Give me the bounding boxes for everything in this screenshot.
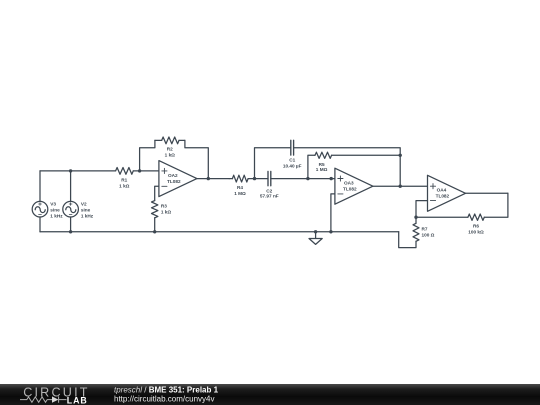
svg-text:V2: V2 bbox=[81, 202, 87, 207]
svg-text:10.40 µF: 10.40 µF bbox=[283, 164, 302, 169]
capacitor C2 bbox=[268, 171, 271, 185]
R5 value label bbox=[316, 162, 328, 172]
R1 value label bbox=[119, 177, 130, 188]
svg-text:sine: sine bbox=[50, 208, 60, 213]
R4 value label bbox=[234, 185, 246, 196]
wire: top rail from V3 to R1 bbox=[40, 170, 116, 172]
node junction OA3- at rail bbox=[329, 230, 332, 233]
svg-text:1 MΩ: 1 MΩ bbox=[316, 167, 328, 172]
voltage source V3 bbox=[32, 171, 48, 232]
wire: to OA3 noninverting input bbox=[308, 178, 335, 180]
node junction OA3 output bbox=[399, 185, 402, 188]
R3 value label bbox=[161, 204, 172, 215]
wire: OA2 output bbox=[197, 178, 229, 180]
resistor R7 bbox=[399, 217, 419, 247]
svg-text:C1: C1 bbox=[289, 158, 295, 163]
op-amp OA2 TL082 bbox=[159, 161, 197, 197]
op-amp OA3 TL082 bbox=[335, 168, 373, 204]
svg-text:tpreschl / BME 351: Prelab 1: tpreschl / BME 351: Prelab 1 bbox=[114, 385, 219, 394]
node junction OA3 input bbox=[330, 177, 333, 180]
svg-text:R2: R2 bbox=[167, 147, 173, 152]
resistor R3 bbox=[152, 201, 158, 232]
wire: C1 branch bbox=[255, 148, 401, 187]
node junction OA4-/R6/R7 bbox=[414, 216, 417, 219]
svg-text:TL082: TL082 bbox=[167, 179, 181, 184]
svg-text:http://circuitlab.com/cunvy4v: http://circuitlab.com/cunvy4v bbox=[114, 395, 214, 404]
V2 value label bbox=[81, 202, 94, 219]
resistor R5 bbox=[315, 152, 332, 158]
wire: OA3 inverting input to ground rail bbox=[331, 194, 335, 232]
wire: C2 leads bbox=[255, 178, 308, 180]
node junction R5/C1 vertical bbox=[399, 154, 402, 157]
C1 value label bbox=[283, 158, 302, 169]
svg-text:1 kHz: 1 kHz bbox=[50, 214, 63, 219]
wire: OA4 inverting input branch bbox=[416, 201, 428, 218]
svg-text:1 kΩ: 1 kΩ bbox=[165, 153, 176, 158]
node junction at R1/R2/OA2+ bbox=[138, 169, 141, 172]
svg-text:R3: R3 bbox=[161, 204, 167, 209]
voltage source V2 bbox=[63, 171, 79, 232]
resistor R1 bbox=[116, 168, 140, 175]
svg-text:sine: sine bbox=[81, 208, 91, 213]
node junction V2 bottom rail bbox=[69, 230, 72, 233]
node junction V2 top rail bbox=[69, 169, 72, 172]
svg-text:100 Ω: 100 Ω bbox=[422, 232, 435, 237]
R7 value label bbox=[422, 227, 435, 238]
svg-text:LAB: LAB bbox=[67, 395, 88, 405]
C2 value label bbox=[260, 189, 279, 199]
svg-text:R1: R1 bbox=[121, 177, 127, 182]
svg-text:57.97 nF: 57.97 nF bbox=[260, 194, 279, 199]
svg-text:R4: R4 bbox=[237, 185, 243, 190]
wire: OA3 output to OA4 bbox=[373, 185, 428, 187]
svg-text:100 kΩ: 100 kΩ bbox=[468, 229, 484, 234]
node junction R4/C1/C2 bbox=[253, 177, 256, 180]
wire: R6 lead from node bbox=[416, 216, 468, 218]
svg-text:1 kΩ: 1 kΩ bbox=[119, 183, 130, 188]
wire: R2 feedback branch bbox=[140, 140, 209, 178]
svg-text:1 kΩ: 1 kΩ bbox=[161, 210, 172, 215]
node junction C2/R5 bbox=[306, 177, 309, 180]
svg-text:R6: R6 bbox=[473, 224, 479, 229]
svg-text:OA3: OA3 bbox=[344, 181, 354, 186]
node junction OA2 output bbox=[207, 177, 210, 180]
wire: R5 feedback branch bbox=[308, 155, 400, 178]
resistor R4 bbox=[229, 175, 254, 182]
footer title text bbox=[114, 385, 219, 403]
wire: OA4 output bbox=[466, 192, 508, 194]
svg-text:TL082: TL082 bbox=[343, 187, 357, 192]
capacitor C1 bbox=[291, 140, 294, 155]
V3 value label bbox=[50, 202, 63, 219]
svg-text:R7: R7 bbox=[422, 227, 428, 232]
R2 value label bbox=[165, 147, 176, 158]
R6 value label bbox=[468, 224, 484, 235]
wire: OA2 inverting input to R3 bbox=[155, 186, 159, 200]
resistor R6 bbox=[468, 193, 508, 220]
node junction ground at rail bbox=[314, 230, 317, 233]
svg-text:OA2: OA2 bbox=[168, 173, 178, 178]
node junction R3 at ground rail bbox=[153, 230, 156, 233]
wire: R1 to OA2 noninverting input bbox=[140, 170, 159, 172]
op-amp OA4 TL082 bbox=[428, 175, 466, 211]
svg-text:1 MΩ: 1 MΩ bbox=[234, 191, 246, 196]
svg-text:1 kHz: 1 kHz bbox=[81, 214, 94, 219]
svg-text:V3: V3 bbox=[50, 202, 56, 207]
svg-text:TL082: TL082 bbox=[436, 194, 450, 199]
wire: ground rail bbox=[40, 231, 399, 233]
CircuitLab logo bbox=[20, 386, 90, 405]
ground symbol bbox=[309, 232, 322, 245]
resistor R2 bbox=[155, 137, 185, 144]
svg-text:OA4: OA4 bbox=[437, 188, 447, 193]
